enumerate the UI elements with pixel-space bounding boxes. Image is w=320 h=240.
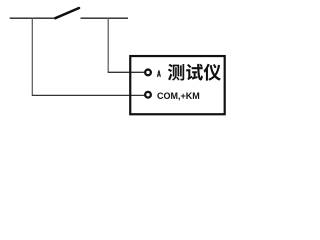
terminal COM,+KM (binding post circle) [145,92,151,98]
wire: right vertical drop from top bus [107,18,109,73]
wire: top bus right segment [81,17,129,19]
switch S1 blade (open knife switch) [55,8,79,18]
label A (pin label) [157,70,161,77]
wire: bottom horizontal run to COM terminal [32,94,145,96]
wire: top bus left segment [10,17,57,19]
label 测试仪 (tester title) [168,64,221,81]
terminal A (binding post circle) [145,70,151,76]
svg-text:COM,+KM: COM,+KM [157,91,200,101]
wire: left vertical drop from top bus [31,18,33,96]
tester box U1 (测试仪 enclosure) [130,56,224,114]
wire: horizontal run to terminal A [108,71,145,73]
